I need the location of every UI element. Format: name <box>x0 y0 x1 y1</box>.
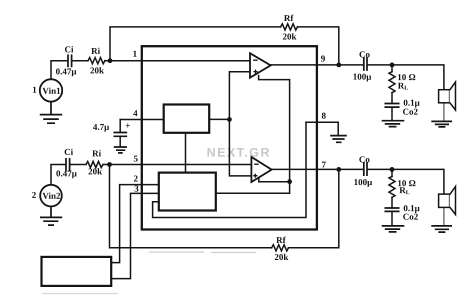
svg-text:Co2: Co2 <box>402 107 418 117</box>
svg-text:4.7μ: 4.7μ <box>93 122 109 132</box>
svg-text:20k: 20k <box>88 166 102 176</box>
svg-text:Ri: Ri <box>92 148 102 158</box>
svg-text:20k: 20k <box>274 252 288 262</box>
svg-text:Ci: Ci <box>64 147 74 157</box>
svg-text:100μ: 100μ <box>353 72 372 82</box>
svg-text:Co: Co <box>359 154 371 164</box>
svg-text:Rf: Rf <box>284 13 295 23</box>
svg-text:3: 3 <box>134 183 139 193</box>
svg-text:20k: 20k <box>283 32 297 42</box>
svg-text:5: 5 <box>134 153 139 163</box>
svg-text:Ri: Ri <box>91 46 101 56</box>
svg-text:7: 7 <box>322 160 327 170</box>
svg-text:Co: Co <box>359 49 371 59</box>
svg-text:0.47μ: 0.47μ <box>56 66 77 76</box>
svg-text:2: 2 <box>32 190 37 200</box>
svg-text:1: 1 <box>32 85 37 95</box>
svg-text:20k: 20k <box>90 65 104 75</box>
svg-text:4: 4 <box>133 108 138 118</box>
svg-text:Co2: Co2 <box>403 212 419 222</box>
svg-text:Ci: Ci <box>65 44 75 54</box>
svg-text:NEXT.GR: NEXT.GR <box>207 146 271 160</box>
svg-text:8: 8 <box>321 111 326 121</box>
svg-text:9: 9 <box>321 54 326 64</box>
svg-text:100μ: 100μ <box>354 177 373 187</box>
svg-text:Vin2: Vin2 <box>42 191 61 201</box>
svg-text:Vin1: Vin1 <box>42 86 61 96</box>
svg-text:+: + <box>125 120 130 130</box>
svg-text:2: 2 <box>134 173 139 183</box>
svg-text:1: 1 <box>133 49 138 59</box>
svg-text:Rf: Rf <box>276 235 287 245</box>
svg-text:0.47μ: 0.47μ <box>56 168 77 178</box>
